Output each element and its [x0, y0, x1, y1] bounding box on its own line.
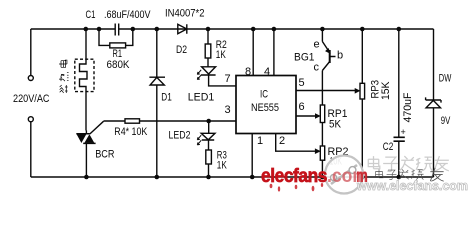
svg-text:IC: IC	[260, 89, 268, 101]
svg-text:b: b	[337, 50, 343, 62]
LED2 branch from pin3	[208, 121, 210, 133]
potentiometer RP1	[320, 105, 324, 146]
pin number 6	[299, 101, 305, 113]
label NE555	[251, 102, 279, 114]
label BG1	[294, 52, 315, 64]
svg-text:IN4007*2: IN4007*2	[165, 8, 205, 20]
pin number 7	[225, 73, 231, 85]
svg-text:c: c	[314, 62, 320, 74]
wire pin2 to RP2 wiper	[276, 134, 320, 154]
transistor BG1	[322, 29, 335, 105]
label b	[337, 50, 343, 62]
label IN4007*2	[165, 8, 205, 20]
svg-text:NE555: NE555	[251, 102, 279, 114]
label RP3 value vertical	[380, 81, 392, 100]
label RP1 value	[329, 119, 342, 131]
zener DW	[426, 29, 441, 177]
label 9V	[441, 115, 451, 127]
svg-text:3: 3	[225, 104, 231, 116]
wire bottom rail	[31, 176, 434, 178]
watermark logo circle	[325, 156, 363, 194]
label LED2	[169, 130, 191, 142]
diode D2	[178, 24, 187, 33]
pin number 5	[299, 77, 305, 89]
LED1	[201, 58, 236, 86]
svg-text:.68uF/400V: .68uF/400V	[104, 9, 151, 21]
label R4* 10K	[114, 126, 148, 138]
watermark chinese row2 电子发烧友 dark	[376, 168, 444, 181]
label RP2 value	[330, 156, 343, 168]
label e	[314, 39, 320, 51]
watermark drips	[270, 183, 324, 192]
capacitor C1	[115, 24, 119, 36]
svg-text:2: 2	[279, 135, 285, 147]
label R3 value	[217, 160, 227, 172]
label 电热丝 vertical	[59, 60, 69, 93]
svg-text:220V/AC: 220V/AC	[13, 93, 50, 105]
label RP1	[328, 108, 348, 120]
svg-text:D1: D1	[161, 92, 172, 104]
wire left rail lower	[30, 122, 32, 177]
pin number 2	[279, 135, 285, 147]
LED2 emission arrows	[197, 135, 201, 145]
label C1 value	[104, 9, 151, 21]
pin number 3	[225, 104, 231, 116]
terminal upper 220V	[28, 76, 33, 81]
svg-text:LED2: LED2	[169, 130, 191, 142]
label RP3 vertical	[370, 80, 382, 99]
label LED1	[188, 92, 215, 104]
label RP2	[328, 146, 349, 158]
label c	[314, 62, 320, 74]
watermark chinese row1 电子发烧友 light	[368, 156, 449, 171]
pin number 1	[257, 135, 263, 147]
label R1	[113, 48, 123, 60]
label C2 plus	[401, 127, 406, 137]
svg-text:680K: 680K	[107, 59, 131, 71]
svg-text:9V: 9V	[441, 115, 451, 127]
resistor R3	[206, 150, 212, 177]
svg-text:1: 1	[257, 135, 263, 147]
svg-text:+: +	[401, 127, 406, 137]
svg-text:D2: D2	[176, 44, 187, 56]
label BCR	[95, 149, 114, 161]
wire pin6 to RP1 wiper	[296, 114, 320, 119]
IC U1 NE555 box	[236, 76, 296, 134]
svg-text:8: 8	[245, 66, 251, 78]
svg-text:DW: DW	[439, 73, 452, 85]
triac BCR	[76, 131, 95, 178]
pin number 4	[264, 66, 270, 78]
svg-text:C2: C2	[383, 141, 394, 153]
diode D1	[149, 29, 165, 177]
wire pin5 to RP3 wiper	[296, 89, 360, 94]
svg-text:R4* 10K: R4* 10K	[114, 126, 148, 138]
pin number 8	[245, 66, 251, 78]
label 470uF vertical	[402, 92, 414, 122]
resistor R2	[205, 29, 211, 58]
svg-text:6: 6	[299, 101, 305, 113]
wire pin4	[273, 29, 275, 76]
LED1 emission arrows	[197, 70, 201, 80]
svg-text:15K: 15K	[380, 81, 392, 100]
svg-text:C1: C1	[86, 9, 96, 21]
wire pin8	[252, 29, 254, 76]
svg-text:www.elecfans.com: www.elecfans.com	[356, 179, 468, 193]
svg-text:BCR: BCR	[95, 149, 114, 161]
wire left rail upper	[30, 29, 32, 75]
label DW	[439, 73, 452, 85]
LED2	[201, 133, 215, 150]
label 680K	[107, 59, 131, 71]
resistor R1	[99, 29, 133, 48]
label IC	[260, 89, 268, 101]
terminal lower 220V	[28, 117, 33, 122]
svg-text:e: e	[314, 39, 320, 51]
label C1	[86, 9, 96, 21]
svg-text:1K: 1K	[217, 160, 227, 172]
wire top rail	[31, 28, 434, 30]
watermark url www.elecfans.com	[356, 179, 468, 193]
junction dots top rail	[84, 27, 402, 32]
label R3	[217, 150, 227, 162]
svg-text:1K: 1K	[216, 49, 226, 61]
svg-text:elecfans: elecfans	[261, 165, 328, 187]
svg-text:470uF: 470uF	[402, 92, 414, 122]
label R2 value	[216, 49, 226, 61]
wire pin1	[251, 134, 253, 178]
potentiometer RP2	[320, 146, 324, 177]
wire BCR gate	[90, 121, 125, 134]
svg-text:5: 5	[299, 77, 305, 89]
watermark elecfans red	[261, 165, 328, 187]
potentiometer RP3	[360, 29, 365, 177]
heater element 电热丝 meander	[80, 29, 88, 131]
junction dots bottom rail	[84, 175, 401, 180]
heater FU dashed box	[75, 59, 94, 91]
svg-text:4: 4	[264, 66, 270, 78]
watermark dotcom pink	[327, 165, 368, 187]
svg-text:7: 7	[225, 73, 231, 85]
label R2	[216, 39, 227, 51]
label D1	[161, 92, 172, 104]
node pin3 junction	[206, 119, 211, 124]
svg-text:BG1: BG1	[294, 52, 315, 64]
svg-text:5K: 5K	[329, 119, 342, 131]
label D2	[176, 44, 187, 56]
label C2	[383, 141, 394, 153]
capacitor C2	[394, 29, 405, 177]
resistor R4	[125, 119, 236, 123]
svg-text:LED1: LED1	[188, 92, 215, 104]
label 220V/AC	[13, 93, 50, 105]
